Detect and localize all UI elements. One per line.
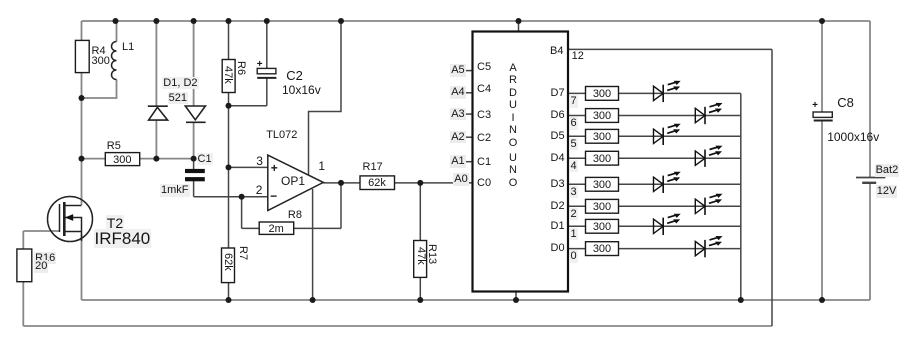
pin number 4 — [570, 160, 578, 173]
value C2 10x16v — [282, 84, 321, 98]
label IRF840 — [94, 229, 152, 249]
wire D2 row — [568, 205, 741, 207]
wire D0 row — [568, 248, 741, 250]
label R8 — [288, 209, 302, 222]
value 300 row D6 — [586, 110, 619, 123]
label R5 — [107, 140, 121, 153]
resistor R13 — [414, 241, 427, 278]
wire LED common to ground — [740, 93, 742, 300]
LED D0 indicator — [695, 236, 722, 257]
value 300 row D7 — [586, 88, 619, 101]
value R17 62k — [360, 177, 394, 190]
wire R13 top leg — [419, 183, 421, 241]
label C1 — [197, 153, 213, 166]
junction R5 left — [79, 156, 85, 162]
pin label D7 — [551, 87, 565, 100]
junction R7 ground — [226, 297, 232, 303]
wire A1 stub — [464, 161, 473, 163]
label C2 — [286, 69, 303, 84]
value 300 row D3 — [586, 179, 619, 192]
op-amp U1 TL072 triangle — [268, 155, 324, 210]
wire V+ supply to op-amp — [309, 21, 342, 175]
resistor R4 — [75, 40, 89, 72]
label ARDUINO vertical — [506, 62, 520, 149]
label R4 — [92, 45, 106, 58]
wire top +12V rail — [82, 20, 871, 22]
wire left branch R4 to drain — [81, 73, 83, 205]
pin label C5 — [477, 61, 491, 74]
pin 3 — [256, 155, 263, 169]
diode D2 521 — [185, 106, 205, 122]
wire L1 bottom to node — [82, 97, 118, 99]
value 300 row D5 — [586, 131, 619, 144]
label R6 — [234, 61, 247, 75]
junction output node — [338, 180, 344, 186]
wire R16 to bottom — [22, 282, 24, 326]
wire B4 to right — [568, 48, 772, 50]
junction D1 bottom — [153, 156, 159, 162]
wire D2 bottom lead — [193, 122, 195, 159]
pin label A4 — [450, 86, 465, 99]
value C1 1mkF — [160, 184, 190, 197]
LED D6 indicator — [695, 103, 722, 124]
LED D7 indicator — [654, 81, 681, 102]
op-amp plus input — [271, 162, 278, 176]
pin label C0 — [477, 177, 491, 190]
junction divider C2 — [226, 103, 232, 109]
value 300 row D0 — [586, 243, 619, 256]
junction C8 ground — [819, 297, 825, 303]
wire R7 bottom lead — [228, 283, 230, 300]
pin label C1 — [477, 156, 491, 169]
wire op-amp pin3 input — [229, 166, 268, 168]
wire D1 row — [568, 225, 741, 227]
resistor RD2 300 — [586, 199, 619, 213]
wire left branch upper — [81, 21, 83, 40]
transistor Q1 T2 IRF840 MOSFET — [48, 197, 93, 242]
resistor R16 — [17, 249, 32, 282]
resistor R6 — [222, 60, 235, 93]
resistor RD7 300 — [586, 87, 619, 101]
label R17 — [363, 161, 383, 174]
wire D6 row — [568, 115, 741, 117]
resistor RD0 300 — [586, 242, 619, 256]
wire arduino top supply — [518, 21, 520, 32]
wire C8 top lead — [821, 21, 823, 112]
pin label A2 — [450, 131, 465, 144]
wire C1 bottom lead — [193, 181, 195, 197]
value R13 47k — [414, 247, 427, 265]
value R5 300 — [105, 154, 139, 167]
pin 2 — [256, 184, 263, 198]
LED D4 indicator — [695, 146, 722, 167]
wire D1 bottom lead — [155, 120, 157, 158]
diode D1 zener 521 — [148, 106, 168, 120]
pin number 12 — [572, 50, 584, 63]
pin label C2 — [477, 132, 491, 145]
capacitor C8 electrolytic — [813, 112, 833, 121]
junction R13 ground — [417, 297, 423, 303]
pin label C3 — [477, 109, 491, 122]
label OP1 — [281, 175, 305, 189]
pin label B4 — [550, 45, 563, 58]
wire R13 bottom leg — [419, 277, 421, 300]
wire output row to A0 — [323, 182, 472, 184]
wire R8 right leg to output — [340, 183, 342, 229]
pin label D1 — [551, 220, 565, 233]
junction C8 top — [819, 18, 825, 24]
wire C2 bottom lead — [266, 78, 268, 106]
wire R8 left leg — [241, 197, 243, 229]
resistor R17 — [360, 176, 395, 190]
LED D3 indicator — [654, 172, 681, 193]
wire arduino ground leg — [515, 292, 517, 301]
resistor RD4 300 — [586, 151, 619, 165]
pin label A5 — [450, 64, 465, 77]
IC U2 Arduino UNO box — [473, 32, 569, 292]
polarity + C8 — [812, 100, 818, 112]
resistor RD6 300 — [586, 109, 619, 123]
junction L1 top — [113, 18, 119, 24]
junction C1 top node — [191, 156, 197, 162]
capacitor C1 — [185, 169, 205, 181]
wire D2 top lead — [193, 21, 195, 106]
pin label D4 — [551, 152, 565, 165]
pin label D2 — [551, 200, 565, 213]
value 300 row D1 — [586, 221, 619, 234]
wire L1 top lead — [116, 21, 118, 42]
label R13 — [425, 244, 438, 264]
LED D5 indicator — [654, 124, 681, 145]
value R6 47k — [222, 66, 235, 84]
value R4 300 — [92, 55, 110, 68]
label D1, D2 — [162, 77, 198, 90]
wire D4 row — [568, 157, 741, 159]
label UNO vertical — [506, 152, 520, 189]
wire R5 row — [82, 158, 196, 160]
label Bat2 — [875, 164, 900, 177]
wire A4 stub — [464, 92, 473, 94]
wire D3 row — [568, 183, 741, 185]
junction D1 top — [153, 18, 159, 24]
pin label C4 — [477, 83, 491, 96]
pin number 6 — [570, 117, 578, 130]
pin number 5 — [570, 138, 578, 151]
polarity + C2 — [257, 59, 263, 71]
pin number 0 — [570, 250, 578, 263]
value R7 62k — [221, 253, 234, 271]
resistor R7 — [222, 248, 235, 283]
wire D5 row — [568, 135, 741, 137]
resistor R8 — [259, 222, 294, 234]
pin number 2 — [570, 208, 578, 221]
wire op-amp pin4 to ground — [312, 189, 314, 300]
wire B4 drop to bottom — [771, 49, 773, 326]
wire A2 stub — [464, 136, 473, 138]
junction R8 left — [239, 194, 245, 200]
pin label D3 — [551, 178, 565, 191]
wire bottom return — [23, 325, 772, 327]
resistor RD1 300 — [586, 219, 619, 233]
value R16 20 — [34, 260, 48, 273]
wire C8 bottom lead — [821, 121, 823, 300]
pin number 3 — [570, 186, 578, 199]
wire right edge lower — [869, 184, 871, 301]
wire L1 bottom lead — [116, 80, 118, 99]
pin number 7 — [570, 95, 578, 108]
resistor RD5 300 — [586, 129, 619, 143]
LED D2 indicator — [695, 194, 722, 215]
wire gate to R16 — [22, 231, 24, 249]
junction arduino supply — [516, 18, 522, 24]
pin 1 — [318, 160, 325, 174]
value 12V — [876, 185, 898, 198]
junction A0 node — [417, 180, 423, 186]
value 300 row D4 — [586, 153, 619, 166]
wire MOSFET source to ground — [81, 234, 83, 300]
wire A3 stub — [464, 113, 473, 115]
LED D1 indicator — [654, 214, 681, 235]
junction C2 top — [264, 18, 270, 24]
inductor L1 — [112, 42, 117, 80]
label R16 — [34, 252, 56, 265]
wire op-amp pin2 input — [194, 196, 268, 198]
junction LED common ground — [738, 297, 744, 303]
junction V+ top — [338, 18, 344, 24]
wire R6 bottom to R7 — [228, 93, 230, 249]
wire D1 top lead — [155, 21, 157, 106]
wire R6 top lead — [228, 21, 230, 60]
value C8 1000x16v — [827, 131, 879, 145]
junction arduino ground — [513, 297, 519, 303]
pin number 1 — [570, 228, 578, 241]
wire gate lead — [23, 230, 59, 232]
junction R6 top — [226, 18, 232, 24]
pin label A1 — [450, 155, 465, 168]
label TL072 — [266, 129, 297, 142]
label C8 — [837, 96, 854, 111]
wire C2 top lead — [266, 21, 268, 68]
wire A5 stub — [464, 70, 473, 72]
label L1 — [122, 41, 134, 54]
wire C1 top lead — [193, 159, 195, 169]
wire D7 row — [568, 92, 741, 94]
capacitor C2 electrolytic — [257, 68, 276, 78]
wire right edge upper — [869, 21, 871, 177]
junction pin3 node — [226, 164, 232, 170]
junction D2 top — [191, 18, 197, 24]
op-amp minus input — [270, 190, 277, 204]
pin label D0 — [551, 242, 565, 255]
battery Bat2 — [856, 178, 885, 183]
value 300 row D2 — [586, 201, 619, 214]
pin label D5 — [551, 130, 565, 143]
pin label D6 — [551, 109, 565, 122]
pin label A0 — [453, 173, 468, 186]
wire C2 to divider node — [229, 105, 267, 107]
label T2 — [106, 215, 124, 231]
wire R8 row — [242, 227, 341, 229]
junction R4-L1 bottom — [79, 95, 85, 101]
wire ground rail — [82, 299, 871, 301]
value 521 — [168, 92, 188, 105]
value R8 2m — [259, 223, 293, 236]
resistor R5 — [105, 153, 139, 166]
label R7 — [236, 246, 249, 260]
pin label A3 — [450, 108, 465, 121]
resistor RD3 300 — [586, 177, 619, 191]
junction pin4 ground — [310, 297, 316, 303]
